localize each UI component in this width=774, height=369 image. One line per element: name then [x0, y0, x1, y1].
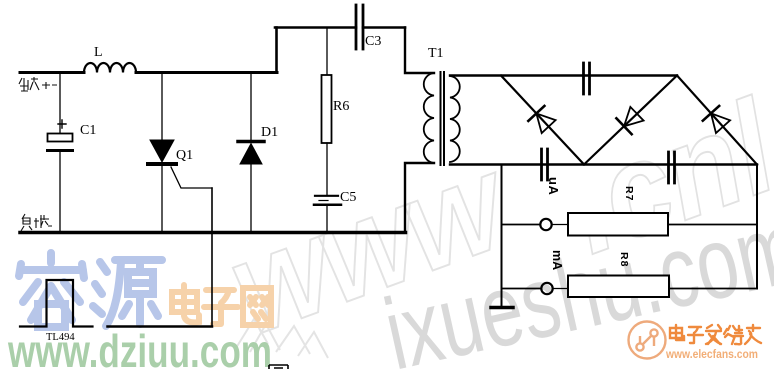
wire riser left of C3: [275, 28, 278, 73]
diode Da: [528, 106, 556, 134]
meter mA: [541, 283, 552, 294]
wire diagonal A-C: [501, 76, 584, 165]
wire diagonal C-B: [584, 76, 677, 165]
wire Q1 gate: [171, 167, 212, 188]
watermark outline W tops tile2 partial bottom-left: [236, 319, 328, 358]
wire uA to R7: [552, 224, 568, 226]
svg-text:R6: R6: [333, 99, 349, 114]
resistor R8: [568, 276, 669, 298]
wire C3 to riser right: [363, 26, 405, 29]
diode Dc: [703, 106, 731, 134]
diode D1: [238, 140, 264, 144]
capacitor C-bot1: [542, 149, 548, 180]
wire riser down to transformer: [405, 28, 434, 74]
wire R7 to right rail: [668, 224, 757, 226]
wire gate vertical to TL494: [211, 188, 213, 327]
svg-text:C5: C5: [340, 190, 356, 205]
diode Db: [616, 106, 644, 134]
wire D1 lead top: [250, 74, 252, 140]
transformer T1 primary winding: [424, 73, 434, 163]
wire R6 to C5: [326, 143, 328, 195]
wire R6 lead top: [326, 29, 328, 76]
capacitor C5: [315, 195, 338, 197]
svg-text:C1: C1: [80, 123, 96, 138]
wire top rail: [20, 71, 277, 74]
watermark 容源 blue: [19, 253, 162, 327]
wire mA to R8: [553, 288, 568, 290]
svg-text:Q1: Q1: [176, 148, 193, 163]
wire top link to C3: [275, 26, 356, 29]
watermark 电子网 orange: [172, 285, 271, 325]
label neg 负极: [21, 214, 52, 231]
wire right rail: [756, 165, 758, 289]
wire D1 lead bottom: [250, 164, 252, 232]
svg-text:uA: uA: [546, 177, 561, 195]
wire C5 lead bottom: [326, 205, 328, 232]
capacitor C3: [355, 5, 358, 49]
TL494 pulse waveform: [20, 280, 93, 327]
svg-text:TL494: TL494: [46, 332, 75, 343]
ground: [501, 289, 503, 308]
transformer T1 core: [441, 72, 445, 165]
caption 图 partial: [269, 365, 288, 369]
svg-text:C3: C3: [365, 34, 381, 49]
wire C1 lead bottom: [59, 152, 61, 233]
svg-text:R7: R7: [623, 186, 635, 201]
watermark elecfans logo: [629, 322, 666, 359]
resistor R6: [322, 75, 332, 143]
wire bottom rail: [20, 231, 406, 235]
wire C1 lead top: [59, 74, 61, 133]
wire R8 to right rail: [669, 288, 757, 290]
watermark 电子发烧友 orange: [670, 325, 761, 344]
wire Q1 lead top: [161, 74, 163, 140]
svg-text:mA: mA: [550, 250, 564, 270]
label input+ 输入+: [19, 77, 57, 91]
wire mA row left: [502, 288, 542, 290]
transformer T1 secondary winding: [450, 76, 460, 162]
capacitor C-top: [584, 63, 590, 94]
wire uA row left: [502, 224, 541, 226]
wire TL494 baseline2: [108, 325, 213, 328]
watermark outline WWWW tile1: [218, 151, 527, 357]
wire transformer primary bottom: [405, 163, 434, 232]
svg-text:R8: R8: [618, 252, 630, 267]
wire secondary top: [450, 74, 677, 76]
wire diagonal B-D: [677, 76, 757, 165]
wire left rail: [501, 165, 503, 289]
capacitor C1: [48, 134, 73, 142]
inductor L: [84, 63, 136, 73]
watermark filled ixueshu.com: [375, 189, 774, 369]
thyristor Q1: [150, 140, 174, 162]
svg-text:L: L: [94, 45, 103, 60]
watermark outline .cnl tile1: [549, 72, 774, 281]
wire secondary bottom: [450, 163, 757, 165]
wire Q1 lead bottom: [161, 166, 163, 232]
meter uA: [540, 219, 551, 230]
resistor R7: [568, 213, 668, 236]
capacitor C-bot2: [669, 152, 675, 183]
svg-text:D1: D1: [261, 125, 278, 140]
svg-text:T1: T1: [428, 46, 444, 61]
svg-text:www.elecfans.com: www.elecfans.com: [665, 349, 758, 361]
